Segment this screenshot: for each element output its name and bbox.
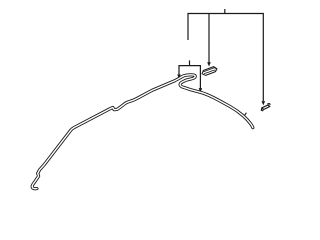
- arrow to middle clip: [207, 62, 211, 66]
- tube nub: [245, 113, 247, 116]
- callout bracket lower: [179, 60, 200, 88]
- arrow to tube lower: [199, 88, 203, 92]
- arrow to tube upper: [177, 75, 181, 79]
- arrow to right clip: [262, 101, 266, 105]
- callout bracket upper: [188, 9, 263, 101]
- middle clip: [202, 67, 217, 76]
- tube core: [32, 75, 253, 189]
- right clip: [261, 104, 270, 111]
